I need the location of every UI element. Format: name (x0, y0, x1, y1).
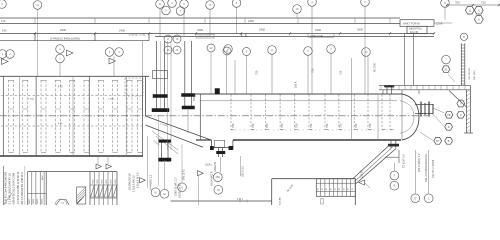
left vessel dashed row 1 (1, 95, 143, 97)
right vessel baffle dashed v10 (381, 95, 383, 131)
right vessel baffle hook 2 (265, 128, 269, 130)
balloon bc1 (151, 188, 160, 197)
leader long P4 (311, 7, 313, 95)
svg-text:140: 140 (2, 29, 7, 33)
balloon ml1 (0, 50, 7, 59)
flag ml (2, 59, 8, 65)
bin top wall (272, 178, 356, 180)
svg-text:170A2 175A2: 170A2 175A2 (310, 34, 324, 37)
svg-text:1.75A: 1.75A (28, 98, 34, 101)
bin column table (316, 179, 355, 197)
head bottom nozzle right (395, 140, 397, 149)
balloon cluster c4 (162, 6, 171, 15)
balloon pipe1 a (164, 35, 172, 43)
svg-text:750: 750 (481, 0, 486, 4)
handrail post 2 (401, 90, 403, 94)
flag leader a (97, 156, 99, 164)
leader bc1 (147, 136, 149, 188)
svg-text:1700 NL TO NL: 1700 NL TO NL (129, 34, 146, 37)
right vessel bottom line a (233, 139, 401, 141)
svg-text:S40 1350: S40 1350 (474, 70, 476, 80)
leader P4a (296, 14, 298, 19)
left notes diagonal (4, 193, 12, 205)
pipe1 flange bar 1 (153, 95, 168, 98)
monorail beam top line (0, 17, 400, 19)
bin right wall (354, 179, 356, 205)
pipe1 right wall (164, 41, 166, 111)
right vessel baffle hook 4 (295, 128, 299, 130)
svg-text:140: 140 (1, 19, 6, 23)
tick t5 (240, 32, 242, 34)
svg-text:2400: 2400 (119, 29, 125, 33)
wall brace diagonal (449, 91, 466, 108)
leader rv5 (307, 56, 309, 95)
svg-text:750: 750 (339, 70, 343, 75)
monorail beam bottom line (0, 23, 400, 25)
leader rv2 (234, 60, 236, 94)
left vessel right edge 2 (142, 41, 144, 116)
svg-text:N23-AB: N23-AB (279, 197, 282, 205)
right vessel baffle dashed v5 (308, 95, 310, 131)
svg-text:2400: 2400 (259, 28, 265, 32)
left vessel bay division v2 (88, 76, 90, 156)
balloon pipe2 b (223, 47, 231, 55)
tick t3 (148, 32, 150, 34)
svg-text:120A2 W: 120A2 W (214, 161, 217, 172)
panel divider v3 (148, 34, 150, 41)
balloon cluster c2 (168, 0, 177, 7)
head side nozzle flange 1 (420, 102, 422, 117)
right vessel baffle dashed v6 (324, 95, 326, 131)
hex cluster leader 1 (433, 108, 445, 113)
top right dimension line (447, 4, 500, 6)
svg-text:750: 750 (251, 123, 255, 128)
hex cluster 6 (445, 137, 453, 144)
svg-text:W80: W80 (93, 180, 95, 184)
leader from cluster (159, 9, 161, 37)
right vessel baffle hook 1 (251, 128, 255, 130)
svg-text:120A2: 120A2 (205, 164, 212, 167)
svg-text:(4 PANELS 8400x2x5400): (4 PANELS 8400x2x5400) (50, 37, 80, 41)
head side nozzle bottom (415, 113, 433, 115)
svg-text:1.0x1.5 W 5.0: 1.0x1.5 W 5.0 (137, 172, 140, 188)
panel divider v2 (94, 34, 96, 41)
pipe2 flange bar 2 (182, 106, 195, 109)
right vessel baffle hook 3 (280, 128, 284, 130)
right vessel baffle dashed v3 (279, 95, 281, 131)
chute flag (359, 180, 365, 185)
balloon bc4 (213, 173, 222, 182)
leader bc3up (181, 144, 183, 183)
svg-text:R: R (463, 36, 465, 39)
svg-text:D22 ∅1.5: D22 ∅1.5 (241, 165, 245, 177)
leader rv6 (330, 54, 332, 95)
dim box 190A (196, 34, 214, 38)
cone bottom diagonal (145, 125, 203, 147)
right vessel left end 2 (193, 94, 195, 101)
right vessel top line (194, 93, 402, 95)
boot corner blob right (229, 146, 233, 149)
parts table 1 (27, 172, 29, 205)
tick t4 (195, 32, 197, 34)
balloon R mid (460, 33, 467, 40)
svg-text:2400: 2400 (248, 19, 254, 23)
leader br1 (393, 163, 395, 171)
boot drain pipe left (218, 148, 220, 158)
svg-text:750: 750 (455, 0, 460, 4)
wall column right (469, 85, 471, 133)
svg-text:CWB 10 W/L 2.3: CWB 10 W/L 2.3 (175, 177, 178, 196)
flag ml3 (67, 50, 73, 56)
cone outlet pipe right (167, 141, 169, 162)
head bottom nozzle left (390, 140, 392, 149)
boot inner box (215, 140, 225, 147)
balloon rv8 (362, 48, 371, 57)
right vessel baffle hook 11 (390, 128, 394, 130)
svg-text:2400: 2400 (357, 28, 363, 32)
svg-text:750: 750 (325, 123, 329, 128)
head tangent line (401, 94, 403, 140)
balloon pipe1 b (173, 35, 181, 43)
leader bc2 (164, 160, 166, 189)
left vessel right edge (144, 76, 146, 116)
leader from balloon 5 (236, 8, 238, 34)
note box ANKT FOR W (400, 20, 434, 27)
balloon bc2 (160, 189, 169, 198)
balloon callout P6 (441, 0, 450, 7)
svg-text:10 W 80 1.3x4.5 AW 2x80 W3: 10 W 80 1.3x4.5 AW 2x80 W3 (4, 171, 7, 204)
boot drain pipe right (222, 148, 224, 158)
svg-text:W80: W80 (111, 180, 113, 184)
balloon ml6 (115, 48, 124, 57)
balloon bc3 (178, 183, 187, 192)
leader br2 (414, 150, 416, 194)
cone inner diagonal 1 (152, 131, 178, 150)
svg-text:190A 130A2: 190A 130A2 (198, 35, 211, 38)
balloon callout P4a (293, 5, 302, 14)
right vessel baffle hook 7 (339, 128, 343, 130)
svg-text:750: 750 (265, 123, 269, 128)
balloon cluster c5 (176, 7, 185, 16)
svg-text:AW 2.5 350x25 W1 ∅89 25 S: AW 2.5 350x25 W1 ∅89 25 S (21, 172, 24, 204)
leader rv8 (367, 57, 369, 95)
handrail post 3 (418, 90, 420, 94)
br connector line v (398, 150, 400, 163)
right vessel bottom line b (196, 139, 211, 141)
svg-text:∅159/∅200 W: ∅159/∅200 W (128, 173, 132, 190)
balloon br4 (424, 194, 433, 203)
balloon ml3 (56, 45, 65, 54)
balloon rv5 (304, 47, 313, 56)
hatched block (77, 187, 86, 204)
svg-text:AG: AG (163, 193, 167, 196)
tick t7 (339, 32, 341, 34)
head top nozzle flange (385, 85, 395, 87)
hex cluster leader 3 (420, 132, 433, 141)
ladder rail right (464, 44, 466, 86)
pipe2 right wall (190, 41, 192, 106)
head bottom nozzle flange (388, 144, 399, 146)
left vessel mid division v1 (72, 76, 74, 156)
handrail post 1 (382, 90, 384, 94)
svg-text:ANKT FOR W: ANKT FOR W (403, 21, 420, 25)
bin feed line (171, 200, 272, 202)
bin left wall (271, 179, 273, 205)
parts table 2 (89, 172, 91, 205)
pipe1 left wall (156, 41, 158, 111)
svg-text:SW 10 T2: SW 10 T2 (183, 169, 186, 180)
svg-text:∅89 W 80 2x1.5 B S40 2.5W: ∅89 W 80 2x1.5 B S40 2.5W (13, 172, 16, 204)
flag bc2 (198, 171, 204, 176)
svg-text:W250: W250 (29, 198, 31, 204)
svg-text:C: C (428, 197, 430, 200)
svg-text:2400: 2400 (60, 28, 66, 32)
right vessel inner top line (200, 100, 397, 102)
flag bc1 (140, 178, 146, 183)
boot left wall (210, 140, 212, 148)
handrail top line (379, 84, 470, 86)
balloon callout P1 (33, 1, 42, 10)
bin small mark (321, 199, 323, 204)
svg-text:G: G (181, 186, 183, 189)
balloon rv6 (327, 45, 336, 54)
svg-text:(TO 4 PABF) 1.2: (TO 4 PABF) 1.2 (418, 153, 421, 172)
pipe1 flange box (153, 71, 168, 79)
head inner arc (400, 101, 414, 133)
wall column hatching (466, 90, 470, 93)
leader long P5 (364, 7, 366, 95)
head side nozzle top (415, 104, 433, 106)
svg-text:TML 3M 300: TML 3M 300 (469, 67, 471, 80)
right end bracket (215, 89, 220, 95)
tick t9 (433, 32, 435, 34)
svg-text:750: 750 (231, 123, 235, 128)
left vessel bottom line (0, 155, 143, 157)
leader rv4 (271, 55, 273, 95)
ladder rungs (461, 44, 465, 46)
boot drain leader (220, 157, 222, 173)
ladder rail left (460, 44, 462, 86)
right vessel baffle hook 6 (325, 128, 329, 130)
left vessel bay division v1 (35, 76, 37, 156)
tick t1 (34, 32, 36, 34)
note dim line (434, 22, 452, 24)
boot right wall (232, 140, 234, 148)
svg-text:W80: W80 (102, 180, 104, 184)
pipe1 inner line (160, 41, 162, 108)
balloon br2 (390, 181, 399, 190)
panel divider v5 (245, 34, 247, 37)
balloon ml5 (105, 48, 114, 57)
leader pipe2 a (210, 53, 212, 95)
right vessel baffle dashed v2 (264, 95, 266, 131)
svg-text:W250: W250 (41, 198, 43, 204)
dim tick b (472, 4, 474, 6)
svg-text:AHU: AHU (41, 175, 44, 180)
balloon callout top-left corner (0, 0, 6, 8)
leader from cluster 2 (183, 9, 185, 37)
right vessel baffle dashed v11 (389, 95, 391, 131)
balloon bc5 (214, 185, 223, 194)
chute line 1 (353, 146, 390, 180)
svg-text:1.5x2.0 AW 1.0: 1.5x2.0 AW 1.0 (133, 175, 136, 192)
balloon rv4 (268, 46, 277, 55)
hex leader (448, 74, 455, 82)
right vessel baffle hook 5 (309, 128, 313, 130)
leader from balloon 11 (37, 10, 39, 77)
leader ml5 (113, 56, 115, 76)
note box HIGH P20 (407, 26, 427, 33)
leader ml3 (59, 63, 61, 76)
tick t2 (94, 32, 96, 34)
flag ml5 (109, 58, 115, 64)
balloon br1 (390, 171, 399, 180)
hex cluster leader 2 (433, 114, 444, 126)
hex callout TR1 (465, 6, 474, 14)
leader bc3 (198, 176, 200, 205)
left notes vline (3, 166, 5, 205)
left vessel baffle dashed pairs (8, 80, 10, 153)
flag tbl a (96, 164, 101, 169)
hex cluster 5 (434, 137, 442, 144)
svg-text:101 HP ×× 2NP0: 101 HP ×× 2NP0 (432, 159, 435, 178)
svg-text:NW +CO WORKSHOP 8.1: NW +CO WORKSHOP 8.1 (425, 153, 428, 182)
leader br3 (428, 150, 430, 194)
bin feed tick 1 (239, 200, 241, 203)
support column right (412, 34, 414, 86)
balloon callout P5 (361, 0, 370, 6)
leader rv1 (226, 54, 228, 95)
svg-text:90 1750: 90 1750 (374, 62, 377, 72)
balloon rv1 (224, 45, 233, 54)
leader from balloon 14 (209, 10, 211, 37)
handrail infill posts (380, 85, 382, 90)
svg-text:750: 750 (309, 123, 313, 128)
flag tbl b (106, 164, 111, 169)
svg-text:MW: MW (216, 176, 221, 179)
right vessel baffle hook 8 (354, 128, 358, 130)
svg-text:TD & BF 2.0: TD & BF 2.0 (403, 154, 406, 168)
handrail bottom line (379, 89, 470, 91)
svg-text:W250: W250 (33, 198, 35, 204)
mini detail (56, 200, 69, 206)
mini detail circle (55, 199, 67, 205)
head outer arc (402, 94, 419, 140)
balloon callout P4 (308, 0, 317, 6)
svg-text:D: D (414, 197, 416, 200)
hex cluster 2 (457, 111, 465, 118)
svg-text:FH: FH (436, 140, 440, 143)
svg-text:2400: 2400 (315, 28, 321, 32)
hex callout TR3 (474, 16, 483, 24)
balloon rv3 (243, 48, 251, 56)
leader from balloon B (444, 7, 446, 19)
head top nozzle right (391, 87, 393, 95)
left vessel mid division v2 (125, 76, 127, 156)
dashed box near cone (125, 78, 143, 96)
monorail band ticks (34, 18, 36, 24)
dim tick a (446, 4, 448, 6)
svg-text:220A: 220A (436, 22, 443, 26)
tick t8 (389, 32, 391, 34)
hex cluster 4 (457, 100, 465, 107)
balloon ml4 (56, 54, 65, 63)
tick t6 (289, 32, 291, 34)
leader bc1d (167, 41, 169, 150)
head side nozzle flange 3 (428, 102, 430, 117)
right vessel baffle dashed v1 (250, 95, 252, 131)
dim tick c (498, 4, 500, 6)
head side nozzle flange 2 (424, 103, 426, 115)
svg-text:D: D (448, 126, 450, 129)
svg-text:4.75: 4.75 (58, 86, 63, 88)
svg-text:1.4 W 50 x3.5 AW 10 W 80 13: 1.4 W 50 x3.5 AW 10 W 80 13 (17, 171, 20, 204)
svg-text:750: 750 (295, 123, 299, 128)
balloon cluster c1 (156, 0, 165, 8)
panel divider v4 (241, 34, 243, 37)
panel band bottom line right (155, 36, 434, 38)
right vessel baffle hook 0 (231, 128, 235, 130)
svg-text:∅104 W02 8: ∅104 W02 8 (210, 171, 214, 186)
chute line 2 (356, 149, 396, 184)
right vessel baffle dashed v9 (367, 95, 369, 131)
balloon cluster c3 (180, 0, 189, 8)
bin feed tick 2 (246, 200, 248, 203)
hex cluster 3 (445, 123, 453, 130)
svg-text:250 A: 250 A (295, 81, 298, 88)
right vessel hook line (231, 129, 392, 131)
cone outlet pipe left (161, 141, 163, 162)
wall base (464, 132, 473, 134)
balloon callout P3 (232, 0, 241, 7)
balloon ml2 (6, 50, 15, 59)
svg-text:750: 750 (280, 123, 284, 128)
head side nozzle flange 4 (432, 104, 434, 114)
balloon callout P2 (206, 1, 215, 10)
balloon pipe2 a (207, 44, 215, 52)
svg-text:4 W 1: 4 W 1 (237, 199, 244, 201)
balloon br3 (411, 194, 420, 203)
right vessel baffle dashed v7 (338, 95, 340, 131)
left vessel top line (0, 75, 149, 77)
svg-text:750: 750 (354, 123, 358, 128)
leader bc6 (240, 156, 242, 176)
cone top diagonal (145, 116, 211, 140)
leader rv3 (246, 56, 248, 94)
svg-text:S 2.5 W1 350x2.5 AW 80 1.5: S 2.5 W1 350x2.5 AW 80 1.5 (9, 173, 12, 205)
dim box 170A2 (308, 34, 334, 38)
hex callout TR2 (474, 6, 483, 14)
leader bc1c (170, 41, 172, 150)
right vessel baffle dashed v4 (294, 95, 296, 131)
balloon circle right a (442, 55, 451, 64)
svg-text:750: 750 (255, 70, 259, 75)
head top nozzle left (386, 87, 388, 95)
svg-text:750: 750 (311, 68, 315, 73)
head weld seam (377, 94, 379, 140)
br connector line h (385, 156, 399, 158)
hex cluster 1 (445, 111, 453, 118)
boot drain flange (217, 151, 226, 154)
support column left (403, 34, 405, 86)
svg-text:FB: FB (447, 114, 451, 117)
left vessel bay division v0 (2, 76, 4, 156)
leader bc1b (158, 115, 160, 186)
svg-text:S=NN500 1.2: S=NN500 1.2 (150, 174, 153, 190)
svg-text:W80: W80 (115, 180, 117, 184)
left vessel dashed row 2 (1, 125, 143, 127)
right vessel baffle hook 10 (382, 128, 386, 130)
